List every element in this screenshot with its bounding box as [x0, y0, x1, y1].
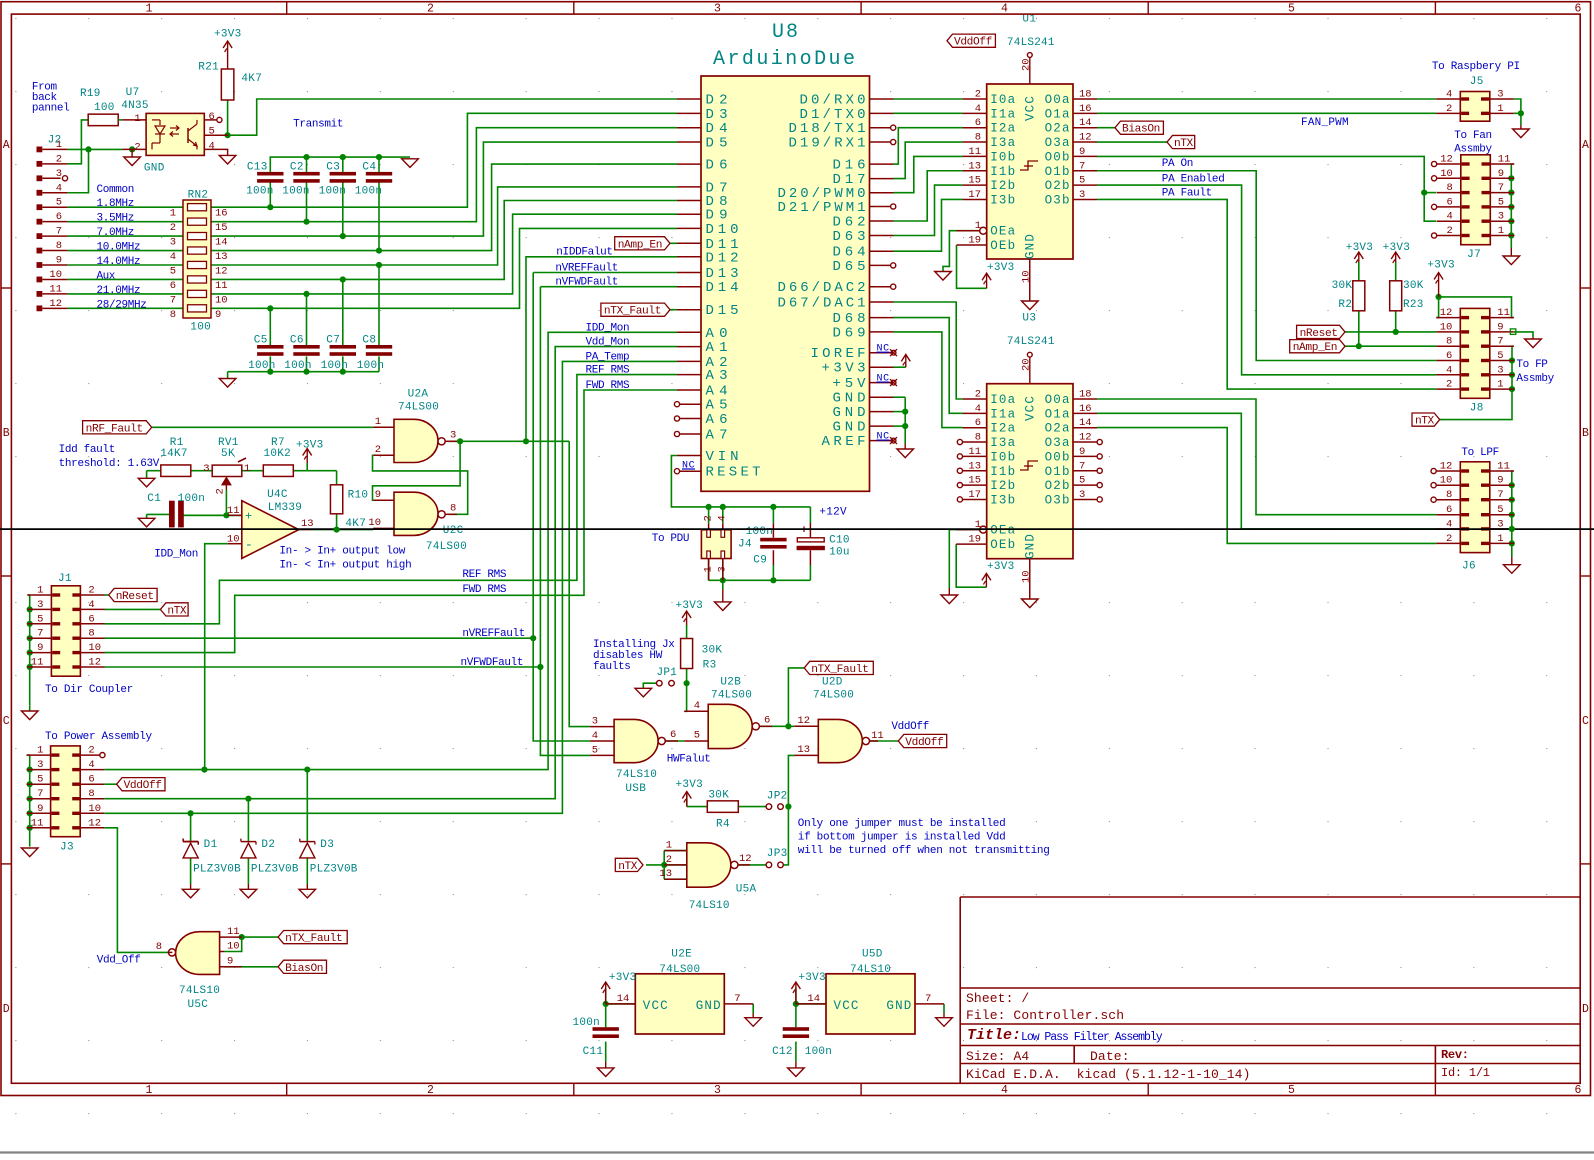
svg-text:6: 6	[1575, 2, 1582, 15]
svg-text:C5: C5	[254, 335, 268, 347]
svg-text:1: 1	[244, 463, 250, 475]
svg-text:BiasOn: BiasOn	[285, 963, 323, 975]
svg-text:OEa: OEa	[990, 524, 1015, 538]
svg-text:10u: 10u	[829, 546, 849, 558]
svg-text:11: 11	[968, 446, 981, 458]
svg-text:100n: 100n	[319, 186, 346, 198]
svg-text:30K: 30K	[1403, 280, 1424, 292]
svg-text:3: 3	[56, 168, 62, 180]
svg-text:2: 2	[56, 153, 62, 165]
svg-text:100n: 100n	[573, 1017, 600, 1029]
svg-text:5: 5	[1288, 2, 1295, 15]
svg-text:NC: NC	[877, 374, 890, 385]
svg-text:J7: J7	[1467, 249, 1481, 261]
svg-text:J1: J1	[58, 573, 72, 585]
svg-text:U5C: U5C	[188, 999, 209, 1011]
svg-text:nVREFFault: nVREFFault	[555, 263, 618, 275]
svg-text:PLZ3V0B: PLZ3V0B	[310, 864, 358, 876]
svg-text:10.0MHz: 10.0MHz	[97, 242, 141, 254]
svg-text:OEb: OEb	[990, 538, 1015, 552]
svg-text:8: 8	[88, 788, 94, 800]
svg-text:1: 1	[170, 208, 176, 220]
svg-text:File: Controller.sch: File: Controller.sch	[966, 1008, 1124, 1023]
svg-text:D12: D12	[706, 250, 739, 266]
svg-text:O3b: O3b	[1045, 493, 1070, 507]
svg-text:17: 17	[968, 189, 981, 201]
svg-text:2: 2	[703, 515, 715, 521]
svg-text:D: D	[3, 1003, 10, 1016]
svg-text:3: 3	[203, 463, 209, 475]
svg-text:C2: C2	[290, 162, 304, 174]
svg-text:12: 12	[1079, 432, 1092, 444]
svg-text:A: A	[3, 139, 10, 152]
svg-text:4: 4	[1446, 89, 1452, 101]
svg-text:6: 6	[1446, 350, 1452, 362]
svg-text:PA Fault: PA Fault	[1162, 187, 1212, 199]
svg-text:O1a: O1a	[1045, 407, 1070, 421]
svg-text:Low Pass Filter Assembly: Low Pass Filter Assembly	[1021, 1031, 1163, 1044]
svg-text:To LPF: To LPF	[1461, 447, 1499, 459]
svg-text:R19: R19	[80, 88, 100, 100]
svg-text:18: 18	[1079, 389, 1092, 401]
svg-text:O2a: O2a	[1045, 422, 1070, 436]
svg-text:HWFalut: HWFalut	[667, 754, 711, 766]
svg-text:6: 6	[170, 280, 176, 292]
svg-text:PA_Temp: PA_Temp	[586, 351, 630, 363]
svg-text:+: +	[245, 510, 252, 524]
svg-text:12: 12	[1440, 154, 1453, 166]
svg-text:C: C	[1582, 715, 1589, 728]
svg-text:Rev:: Rev:	[1441, 1048, 1469, 1062]
svg-text:D1: D1	[204, 839, 218, 851]
svg-text:2: 2	[88, 585, 94, 597]
svg-text:3: 3	[1079, 189, 1085, 201]
svg-text:REF RMS: REF RMS	[462, 569, 506, 581]
svg-text:2: 2	[1446, 533, 1452, 545]
svg-text:2: 2	[88, 745, 94, 757]
svg-text:Vdd_Mon: Vdd_Mon	[586, 337, 630, 349]
svg-text:100n: 100n	[246, 186, 273, 198]
svg-text:In- < In+ output high: In- < In+ output high	[279, 560, 411, 572]
svg-text:7.0MHz: 7.0MHz	[97, 227, 135, 239]
svg-text:nTX: nTX	[1174, 138, 1193, 150]
svg-text:7: 7	[1497, 489, 1503, 501]
svg-text:Sheet: /: Sheet: /	[966, 991, 1029, 1006]
svg-text:KiCad E.D.A. kicad (5.1.12-1-: KiCad E.D.A. kicad (5.1.12-1-10_14)	[966, 1067, 1250, 1082]
svg-text:11: 11	[215, 280, 228, 292]
svg-text:6: 6	[209, 111, 215, 123]
svg-text:13: 13	[797, 744, 810, 756]
svg-text:VIN: VIN	[706, 449, 739, 465]
svg-text:nVFWDFault: nVFWDFault	[555, 277, 618, 289]
svg-text:2: 2	[215, 488, 227, 494]
svg-text:4: 4	[717, 515, 729, 521]
svg-text:VddOff: VddOff	[124, 780, 162, 792]
svg-text:D14: D14	[706, 280, 739, 296]
svg-text:JP1: JP1	[657, 667, 678, 679]
svg-text:J2: J2	[48, 135, 62, 147]
svg-text:FAN_PWM: FAN_PWM	[1301, 117, 1349, 129]
svg-text:O0b: O0b	[1045, 450, 1070, 464]
svg-text:JP3: JP3	[767, 848, 787, 860]
svg-text:D3: D3	[320, 839, 334, 851]
svg-text:PA On: PA On	[1162, 158, 1194, 170]
svg-text:4K7: 4K7	[345, 518, 365, 530]
svg-text:7: 7	[734, 993, 740, 1005]
svg-text:-: -	[245, 538, 253, 553]
svg-text:U2D: U2D	[822, 677, 843, 689]
svg-text:4: 4	[170, 251, 176, 263]
svg-text:11: 11	[871, 730, 884, 742]
svg-text:J4: J4	[738, 539, 752, 551]
svg-text:In- > In+ output low: In- > In+ output low	[279, 546, 405, 558]
svg-text:13: 13	[215, 251, 228, 263]
svg-text:J3: J3	[60, 842, 74, 854]
svg-text:VCC: VCC	[643, 999, 668, 1013]
svg-text:RN2: RN2	[188, 189, 208, 201]
svg-text:4: 4	[56, 182, 62, 194]
svg-text:1: 1	[37, 585, 43, 597]
svg-text:+3V3: +3V3	[676, 779, 703, 791]
svg-text:6: 6	[1446, 504, 1452, 516]
svg-text:B: B	[1582, 427, 1589, 440]
svg-text:6: 6	[975, 117, 981, 129]
svg-text:+3V3: +3V3	[1346, 242, 1373, 254]
svg-text:nVFWDFault: nVFWDFault	[461, 657, 524, 669]
svg-text:2: 2	[375, 444, 381, 456]
svg-text:nAmp_En: nAmp_En	[618, 239, 663, 251]
svg-text:VCC: VCC	[834, 999, 859, 1013]
svg-text:74LS00: 74LS00	[398, 402, 439, 414]
svg-text:14K7: 14K7	[160, 448, 187, 460]
svg-text:8: 8	[170, 309, 176, 321]
svg-text:I3b: I3b	[990, 193, 1015, 207]
svg-text:100n: 100n	[248, 360, 275, 372]
svg-text:O1a: O1a	[1045, 107, 1070, 121]
svg-text:13: 13	[968, 460, 981, 472]
svg-text:C9: C9	[753, 555, 767, 567]
svg-text:C11: C11	[583, 1046, 604, 1058]
svg-text:74LS00: 74LS00	[659, 964, 700, 976]
svg-text:1: 1	[37, 745, 43, 757]
svg-text:10: 10	[49, 269, 62, 281]
svg-text:Assmby: Assmby	[1516, 373, 1554, 385]
svg-text:19: 19	[968, 235, 981, 247]
svg-text:J6: J6	[1462, 561, 1476, 573]
svg-text:3: 3	[37, 599, 43, 611]
svg-text:12: 12	[215, 266, 228, 278]
svg-text:12: 12	[1440, 461, 1453, 473]
svg-text:7: 7	[170, 294, 176, 306]
svg-text:74LS10: 74LS10	[850, 964, 891, 976]
svg-text:+3V3: +3V3	[1383, 242, 1410, 254]
svg-text:D69: D69	[833, 325, 866, 341]
svg-text:7: 7	[925, 993, 931, 1005]
svg-text:2: 2	[1446, 103, 1452, 115]
svg-text:5: 5	[37, 774, 43, 786]
svg-text:11: 11	[31, 817, 44, 829]
svg-text:100n: 100n	[284, 360, 311, 372]
svg-text:12: 12	[88, 657, 101, 669]
svg-text:3: 3	[1497, 364, 1503, 376]
svg-text:3: 3	[37, 759, 43, 771]
svg-text:15: 15	[968, 475, 981, 487]
svg-text:3.5MHz: 3.5MHz	[97, 213, 135, 225]
svg-text:11: 11	[968, 146, 981, 158]
svg-text:C7: C7	[326, 335, 340, 347]
svg-text:6: 6	[670, 729, 676, 741]
svg-text:30K: 30K	[702, 645, 723, 657]
svg-text:10K2: 10K2	[264, 448, 291, 460]
svg-text:O3a: O3a	[1045, 436, 1070, 450]
svg-text:10: 10	[1440, 321, 1453, 333]
svg-text:14: 14	[807, 993, 820, 1005]
svg-text:9: 9	[37, 642, 43, 654]
svg-text:2: 2	[975, 89, 981, 101]
svg-text:14.0MHz: 14.0MHz	[97, 256, 141, 268]
svg-text:11: 11	[49, 283, 62, 295]
svg-text:GND: GND	[1024, 234, 1038, 259]
svg-text:9: 9	[1497, 475, 1503, 487]
svg-text:GND: GND	[144, 163, 165, 175]
svg-text:6: 6	[764, 715, 770, 727]
svg-text:7: 7	[56, 226, 62, 238]
svg-text:if bottom jumper is installed: if bottom jumper is installed Vdd	[798, 832, 1006, 844]
svg-text:3: 3	[714, 2, 721, 15]
svg-text:12: 12	[88, 817, 101, 829]
svg-text:5: 5	[37, 613, 43, 625]
svg-text:7: 7	[1079, 460, 1085, 472]
svg-text:FWD RMS: FWD RMS	[462, 584, 506, 596]
svg-text:6: 6	[88, 613, 94, 625]
svg-text:VddOff: VddOff	[905, 737, 943, 749]
svg-text:O0a: O0a	[1045, 393, 1070, 407]
svg-text:9: 9	[227, 956, 233, 968]
svg-text:FWD RMS: FWD RMS	[586, 380, 630, 392]
svg-text:5: 5	[1079, 175, 1085, 187]
svg-text:2: 2	[427, 1084, 434, 1097]
svg-text:R10: R10	[348, 490, 368, 502]
svg-text:D10: D10	[706, 222, 739, 238]
svg-text:13: 13	[968, 160, 981, 172]
svg-text:nAmp_En: nAmp_En	[1293, 342, 1338, 354]
svg-text:20: 20	[1021, 58, 1033, 71]
svg-text:PA Enabled: PA Enabled	[1162, 173, 1225, 185]
svg-text:R23: R23	[1403, 299, 1423, 311]
svg-text:8: 8	[88, 628, 94, 640]
svg-text:U3: U3	[1022, 313, 1036, 325]
svg-text:9: 9	[56, 255, 62, 267]
svg-text:74LS00: 74LS00	[813, 690, 854, 702]
svg-text:J5: J5	[1470, 76, 1484, 88]
svg-text:Aux: Aux	[97, 270, 116, 282]
svg-text:LM339: LM339	[268, 502, 302, 514]
svg-text:C: C	[3, 715, 10, 728]
svg-text:1: 1	[134, 113, 140, 125]
svg-text:PLZ3V0B: PLZ3V0B	[251, 864, 299, 876]
svg-text:5: 5	[209, 126, 215, 138]
svg-text:4: 4	[975, 403, 981, 415]
svg-text:JP2: JP2	[767, 791, 787, 803]
svg-text:NC: NC	[877, 344, 890, 355]
svg-text:2: 2	[134, 142, 140, 154]
svg-text:3: 3	[592, 716, 598, 728]
svg-text:R4: R4	[716, 819, 730, 831]
svg-text:D2: D2	[261, 839, 275, 851]
svg-text:10: 10	[227, 941, 240, 953]
svg-text:3: 3	[717, 566, 729, 572]
svg-text:74LS241: 74LS241	[1007, 37, 1055, 49]
svg-text:12: 12	[797, 715, 810, 727]
svg-text:B: B	[3, 427, 10, 440]
svg-text:5: 5	[1497, 504, 1503, 516]
svg-text:1: 1	[1498, 225, 1504, 237]
svg-text:4: 4	[1001, 1084, 1008, 1097]
svg-text:C1: C1	[147, 493, 161, 505]
svg-text:3: 3	[714, 1084, 721, 1097]
svg-text:4K7: 4K7	[241, 73, 261, 85]
svg-text:14: 14	[1079, 117, 1092, 129]
svg-text:USB: USB	[625, 783, 646, 795]
svg-text:D: D	[1582, 1003, 1589, 1016]
svg-text:+5V: +5V	[833, 376, 867, 392]
svg-text:U5D: U5D	[862, 949, 883, 961]
svg-text:D65: D65	[833, 259, 866, 275]
svg-text:10: 10	[1021, 570, 1033, 583]
svg-text:8: 8	[1446, 489, 1452, 501]
svg-text:Title:: Title:	[967, 1027, 1021, 1044]
svg-text:5: 5	[1498, 196, 1504, 208]
svg-text:8: 8	[975, 432, 981, 444]
svg-text:14: 14	[1079, 417, 1092, 429]
svg-text:VddOff: VddOff	[954, 37, 992, 49]
svg-text:100n: 100n	[282, 186, 309, 198]
svg-text:R3: R3	[703, 660, 717, 672]
svg-text:+3V3: +3V3	[1427, 260, 1454, 272]
svg-text:1: 1	[1497, 103, 1503, 115]
svg-text:To Raspbery PI: To Raspbery PI	[1432, 61, 1520, 73]
svg-text:10: 10	[1440, 168, 1453, 180]
svg-text:100n: 100n	[357, 360, 384, 372]
svg-text:4: 4	[88, 599, 94, 611]
svg-text:I2b: I2b	[990, 179, 1015, 193]
svg-text:VCC: VCC	[1024, 96, 1038, 121]
svg-text:74LS00: 74LS00	[711, 690, 752, 702]
svg-text:5K: 5K	[221, 448, 235, 460]
svg-text:4: 4	[694, 700, 700, 712]
svg-text:1: 1	[703, 566, 715, 572]
svg-text:NC: NC	[682, 461, 695, 472]
svg-text:100n: 100n	[178, 493, 205, 505]
svg-text:pannel: pannel	[32, 103, 70, 115]
svg-text:O2a: O2a	[1045, 122, 1070, 136]
svg-text:8: 8	[1446, 336, 1452, 348]
svg-text:+: +	[801, 525, 808, 537]
svg-text:5: 5	[1079, 475, 1085, 487]
svg-text:14: 14	[215, 237, 228, 249]
svg-text:10: 10	[368, 517, 381, 529]
svg-text:74LS10: 74LS10	[179, 985, 220, 997]
svg-text:O3a: O3a	[1045, 136, 1070, 150]
svg-text:13: 13	[301, 518, 314, 530]
svg-text:Common: Common	[97, 184, 135, 196]
svg-text:3: 3	[450, 430, 456, 442]
svg-text:U2A: U2A	[408, 389, 429, 401]
svg-text:5: 5	[1288, 1084, 1295, 1097]
svg-text:100: 100	[190, 322, 210, 334]
svg-text:30K: 30K	[708, 790, 729, 802]
svg-text:nVREFFault: nVREFFault	[462, 628, 525, 640]
svg-text:4N35: 4N35	[121, 100, 148, 112]
svg-text:9: 9	[1079, 446, 1085, 458]
svg-text:10: 10	[88, 803, 101, 815]
svg-text:9: 9	[37, 803, 43, 815]
svg-text:I2b: I2b	[990, 479, 1015, 493]
svg-text:O1b: O1b	[1045, 465, 1070, 479]
svg-text:7: 7	[37, 628, 43, 640]
svg-text:100n: 100n	[805, 1046, 832, 1058]
svg-text:5: 5	[56, 197, 62, 209]
svg-text:O0a: O0a	[1045, 93, 1070, 107]
svg-text:12: 12	[1079, 132, 1092, 144]
svg-text:C10: C10	[829, 535, 849, 547]
svg-text:2: 2	[1446, 379, 1452, 391]
svg-text:U4C: U4C	[267, 489, 288, 501]
svg-text:will be turned off when not tr: will be turned off when not transmitting	[798, 845, 1050, 857]
svg-text:1: 1	[1497, 379, 1503, 391]
svg-text:nTX: nTX	[1415, 416, 1434, 428]
svg-text:BiasOn: BiasOn	[1122, 124, 1160, 136]
svg-text:9: 9	[1498, 168, 1504, 180]
svg-text:4: 4	[1446, 211, 1452, 223]
svg-text:To Power Assembly: To Power Assembly	[45, 731, 152, 743]
svg-text:I1b: I1b	[990, 465, 1015, 479]
svg-text:U5A: U5A	[736, 884, 757, 896]
svg-text:7: 7	[1079, 160, 1085, 172]
svg-text:Assmby: Assmby	[1454, 144, 1492, 156]
svg-text:1: 1	[666, 840, 672, 852]
svg-text:11: 11	[1497, 307, 1510, 319]
svg-text:1.8MHz: 1.8MHz	[97, 198, 135, 210]
svg-text:+3V3: +3V3	[987, 561, 1014, 573]
svg-text:Transmit: Transmit	[293, 119, 343, 131]
svg-text:7: 7	[1497, 336, 1503, 348]
svg-text:U1: U1	[1022, 13, 1036, 25]
svg-text:9: 9	[1497, 321, 1503, 333]
svg-text:5: 5	[694, 730, 700, 742]
svg-text:D15: D15	[706, 303, 739, 319]
svg-text:U8: U8	[772, 21, 798, 44]
svg-text:+3V3: +3V3	[296, 440, 323, 452]
svg-text:OEb: OEb	[990, 239, 1015, 253]
svg-text:nTX: nTX	[167, 605, 186, 617]
svg-text:20: 20	[1021, 358, 1033, 371]
svg-text:4: 4	[88, 759, 94, 771]
svg-text:I2a: I2a	[990, 422, 1015, 436]
svg-text:PLZ3V0B: PLZ3V0B	[193, 864, 241, 876]
svg-text:4: 4	[975, 103, 981, 115]
svg-text:Id: 1/1: Id: 1/1	[1441, 1066, 1490, 1080]
svg-text:8: 8	[156, 941, 162, 953]
svg-text:19: 19	[968, 534, 981, 546]
svg-text:10: 10	[227, 534, 240, 546]
svg-text:12: 12	[1440, 307, 1453, 319]
svg-text:2: 2	[427, 2, 434, 15]
svg-text:6: 6	[88, 774, 94, 786]
svg-text:12: 12	[49, 298, 62, 310]
svg-text:Date:: Date:	[1090, 1049, 1130, 1064]
svg-text:C3: C3	[326, 162, 340, 174]
